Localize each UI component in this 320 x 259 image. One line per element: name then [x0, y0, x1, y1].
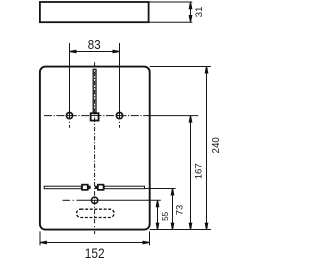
- top edge extension line for 240: [150, 66, 211, 68]
- extension line right for 152: [149, 231, 151, 245]
- left clamp stub: [89, 186, 90, 188]
- dashed stadium cutout: [77, 209, 115, 217]
- dimension line 240: [205, 66, 209, 230]
- vertical centerline of plate (drawn over slot, square, screw, stadium): [94, 62, 96, 234]
- dimension line 83 with arrows: [69, 50, 119, 54]
- svg-text:240: 240: [211, 137, 222, 154]
- dimension line 73: [171, 188, 175, 230]
- extension line left for 152: [39, 231, 41, 245]
- label 31 (rotated): [194, 7, 205, 18]
- right clamp square: [98, 185, 104, 190]
- svg-text:73: 73: [175, 205, 185, 215]
- svg-text:31: 31: [194, 7, 205, 18]
- extension line bottom for 31 dim: [149, 21, 193, 23]
- extension of hole centerline to 167 dim: [149, 115, 198, 117]
- svg-text:83: 83: [88, 37, 101, 52]
- front plate outline (rounded): [40, 67, 150, 230]
- svg-text:167: 167: [193, 163, 204, 179]
- horizontal centerline through holes (dash-dot): [44, 115, 149, 117]
- mounting hole left: [66, 112, 74, 128]
- extension/center line of right hole for 83 dim: [119, 43, 121, 119]
- label 167 (rotated): [193, 163, 204, 179]
- label 83: [88, 37, 101, 52]
- label 55 (rotated): [161, 211, 170, 221]
- label 240 (rotated): [211, 137, 222, 154]
- top view rectangle (enclosure depth view): [40, 2, 149, 22]
- keyhole slot (vertical channel): [93, 69, 96, 112]
- screw head circle: [91, 197, 98, 203]
- bottom edge extension line to right dims: [150, 229, 211, 231]
- bar extension line for 73: [145, 188, 176, 190]
- extension line top for 31 dim: [149, 1, 193, 3]
- screw horizontal centerline (55 extension): [63, 199, 161, 201]
- square hole at slot bottom: [91, 113, 99, 120]
- label 73 (rotated): [175, 205, 185, 215]
- mounting hole right: [116, 112, 124, 128]
- left clamp square: [82, 185, 88, 190]
- svg-text:55: 55: [161, 211, 170, 221]
- dimension line 31 with arrows: [189, 2, 193, 22]
- svg-text:152: 152: [85, 246, 105, 259]
- label 152: [85, 246, 105, 259]
- dimension line 152 with arrows: [40, 241, 150, 245]
- dimension line 167: [189, 115, 193, 229]
- dimension line 55: [156, 200, 160, 230]
- rail bar right segment: [104, 186, 144, 189]
- right clamp stub: [96, 186, 97, 188]
- rail bar left segment: [44, 186, 81, 189]
- extension/center line of left hole for 83 dim: [69, 43, 71, 119]
